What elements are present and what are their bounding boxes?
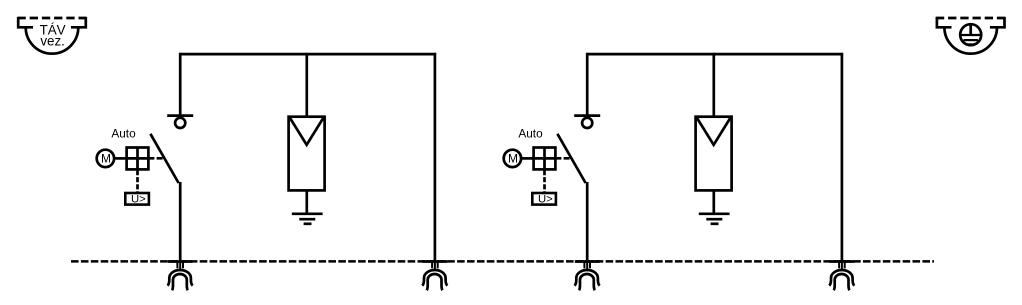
plug connector outer fork (right) (422, 270, 447, 286)
motor drive M circle (bay 2) (504, 150, 521, 167)
wire: bay 1 right drop to busbar (434, 53, 437, 263)
drive box cross horizontal (bay 2) (534, 157, 556, 160)
dashed control link to U> relay (136, 170, 139, 192)
plug connector outer fork (bay 2 right) (829, 270, 854, 286)
plug connector outer fork (bay 2 left) (575, 270, 600, 286)
earth electrode terminal symbol (top right) (936, 17, 1006, 54)
right bracket of line terminal (71, 17, 86, 27)
protective earth bar 1 (959, 34, 982, 36)
plug connector bar (bay 2 left) (575, 260, 600, 263)
wire: bay 2 right drop to busbar (841, 53, 844, 263)
wire: bay 2 arrester drop (712, 53, 715, 117)
plug connector bar (bay 2 right) (830, 260, 855, 263)
semicircle of earth terminal (944, 27, 997, 53)
svg-text:vez.: vez. (40, 34, 65, 49)
plug connector ticks (bay 2 left) (584, 263, 590, 271)
drive mechanism box (127, 148, 149, 170)
ground bar 1 (292, 212, 323, 215)
bay 2 (504, 53, 855, 290)
protective earth circle (960, 24, 981, 45)
wire: bay 1 left drop (179, 53, 182, 115)
left bracket of line terminal (18, 17, 33, 27)
wire: bay 1 top bus (179, 53, 436, 56)
wire: dashed line to earthing system (936, 17, 1006, 20)
svg-text:Auto: Auto (111, 127, 136, 141)
svg-text:M: M (508, 152, 518, 166)
plug connector bar (left, on busbar) (168, 260, 193, 263)
disconnector blade (open) (150, 134, 178, 183)
ground bar 2 (299, 218, 315, 221)
wire: bay 1 disconnector to busbar (179, 182, 182, 263)
plug connector inner fork (bay 2 left) (579, 274, 595, 290)
left bracket of earth terminal (937, 17, 952, 27)
wire: motor to drive box (bay 2) (521, 157, 534, 160)
plug connector ticks (bay 2 right) (839, 263, 845, 271)
right bracket of earth terminal (990, 17, 1005, 27)
wire: bay 2 top bus (586, 53, 843, 56)
ground bar 3 (bay 2) (711, 222, 719, 225)
surge arrester body (289, 117, 325, 191)
disconnector blade (bay 2) (557, 134, 585, 183)
plug connector outer fork (left) (168, 270, 193, 286)
wire: bay 2 left drop (586, 53, 589, 115)
plug connector ticks (right) (432, 263, 438, 271)
plug connector inner fork (right) (427, 274, 443, 290)
dashed mechanical link to blade (bay 2) (555, 157, 570, 160)
relay U> box (bay 2) (532, 193, 556, 205)
disconnector fixed contact circle (175, 118, 185, 128)
relay U> box (125, 193, 149, 205)
wire: arrester to ground (bay 2) (712, 190, 715, 213)
surge arrester body (bay 2) (696, 117, 732, 191)
wire: dashed line to remote transmission line (18, 17, 87, 20)
wire: bay 2 disconnector to busbar (586, 182, 589, 263)
disconnector fixed contact circle (bay 2) (582, 118, 592, 128)
wire: arrester to ground (305, 190, 308, 213)
plug connector inner fork (bay 2 right) (834, 274, 850, 290)
svg-text:U>: U> (538, 194, 553, 206)
surge arrester chevron (290, 118, 323, 145)
ground bar 2 (bay 2) (706, 218, 722, 221)
plug connector ticks (left) (177, 263, 183, 271)
plug connector inner fork (left) (172, 274, 188, 290)
drive box cross vertical (136, 148, 139, 170)
ground bar 3 (304, 222, 312, 225)
dashed control link to U> relay (bay 2) (543, 170, 546, 192)
svg-text:U>: U> (131, 194, 146, 206)
surge arrester chevron (bay 2) (697, 118, 730, 145)
wire: motor to drive box (114, 157, 127, 160)
semicircle of line terminal (26, 27, 79, 53)
plug connector bar (right, on busbar) (423, 260, 448, 263)
remote line terminal symbol "TÁV vez." (top left) (18, 17, 87, 54)
protective earth bar 2 (964, 39, 978, 41)
protective earth stem (969, 24, 972, 35)
protective earth bar 3 (968, 43, 974, 45)
ground bar 1 (bay 2) (699, 212, 730, 215)
wire: bay 1 arrester drop (305, 53, 308, 117)
disconnector fixed contact tick (bay 2) (574, 114, 600, 117)
drive box cross horizontal (127, 157, 149, 160)
bay 1 (97, 53, 448, 290)
busbar (dashed bottom bus) (71, 260, 934, 263)
disconnector fixed contact tick (167, 114, 193, 117)
drive mechanism box (bay 2) (534, 148, 556, 170)
svg-text:Auto: Auto (518, 127, 543, 141)
svg-text:M: M (101, 152, 111, 166)
drive box cross vertical (bay 2) (543, 148, 546, 170)
dashed mechanical link to blade (148, 157, 163, 160)
motor drive M circle (97, 150, 114, 167)
